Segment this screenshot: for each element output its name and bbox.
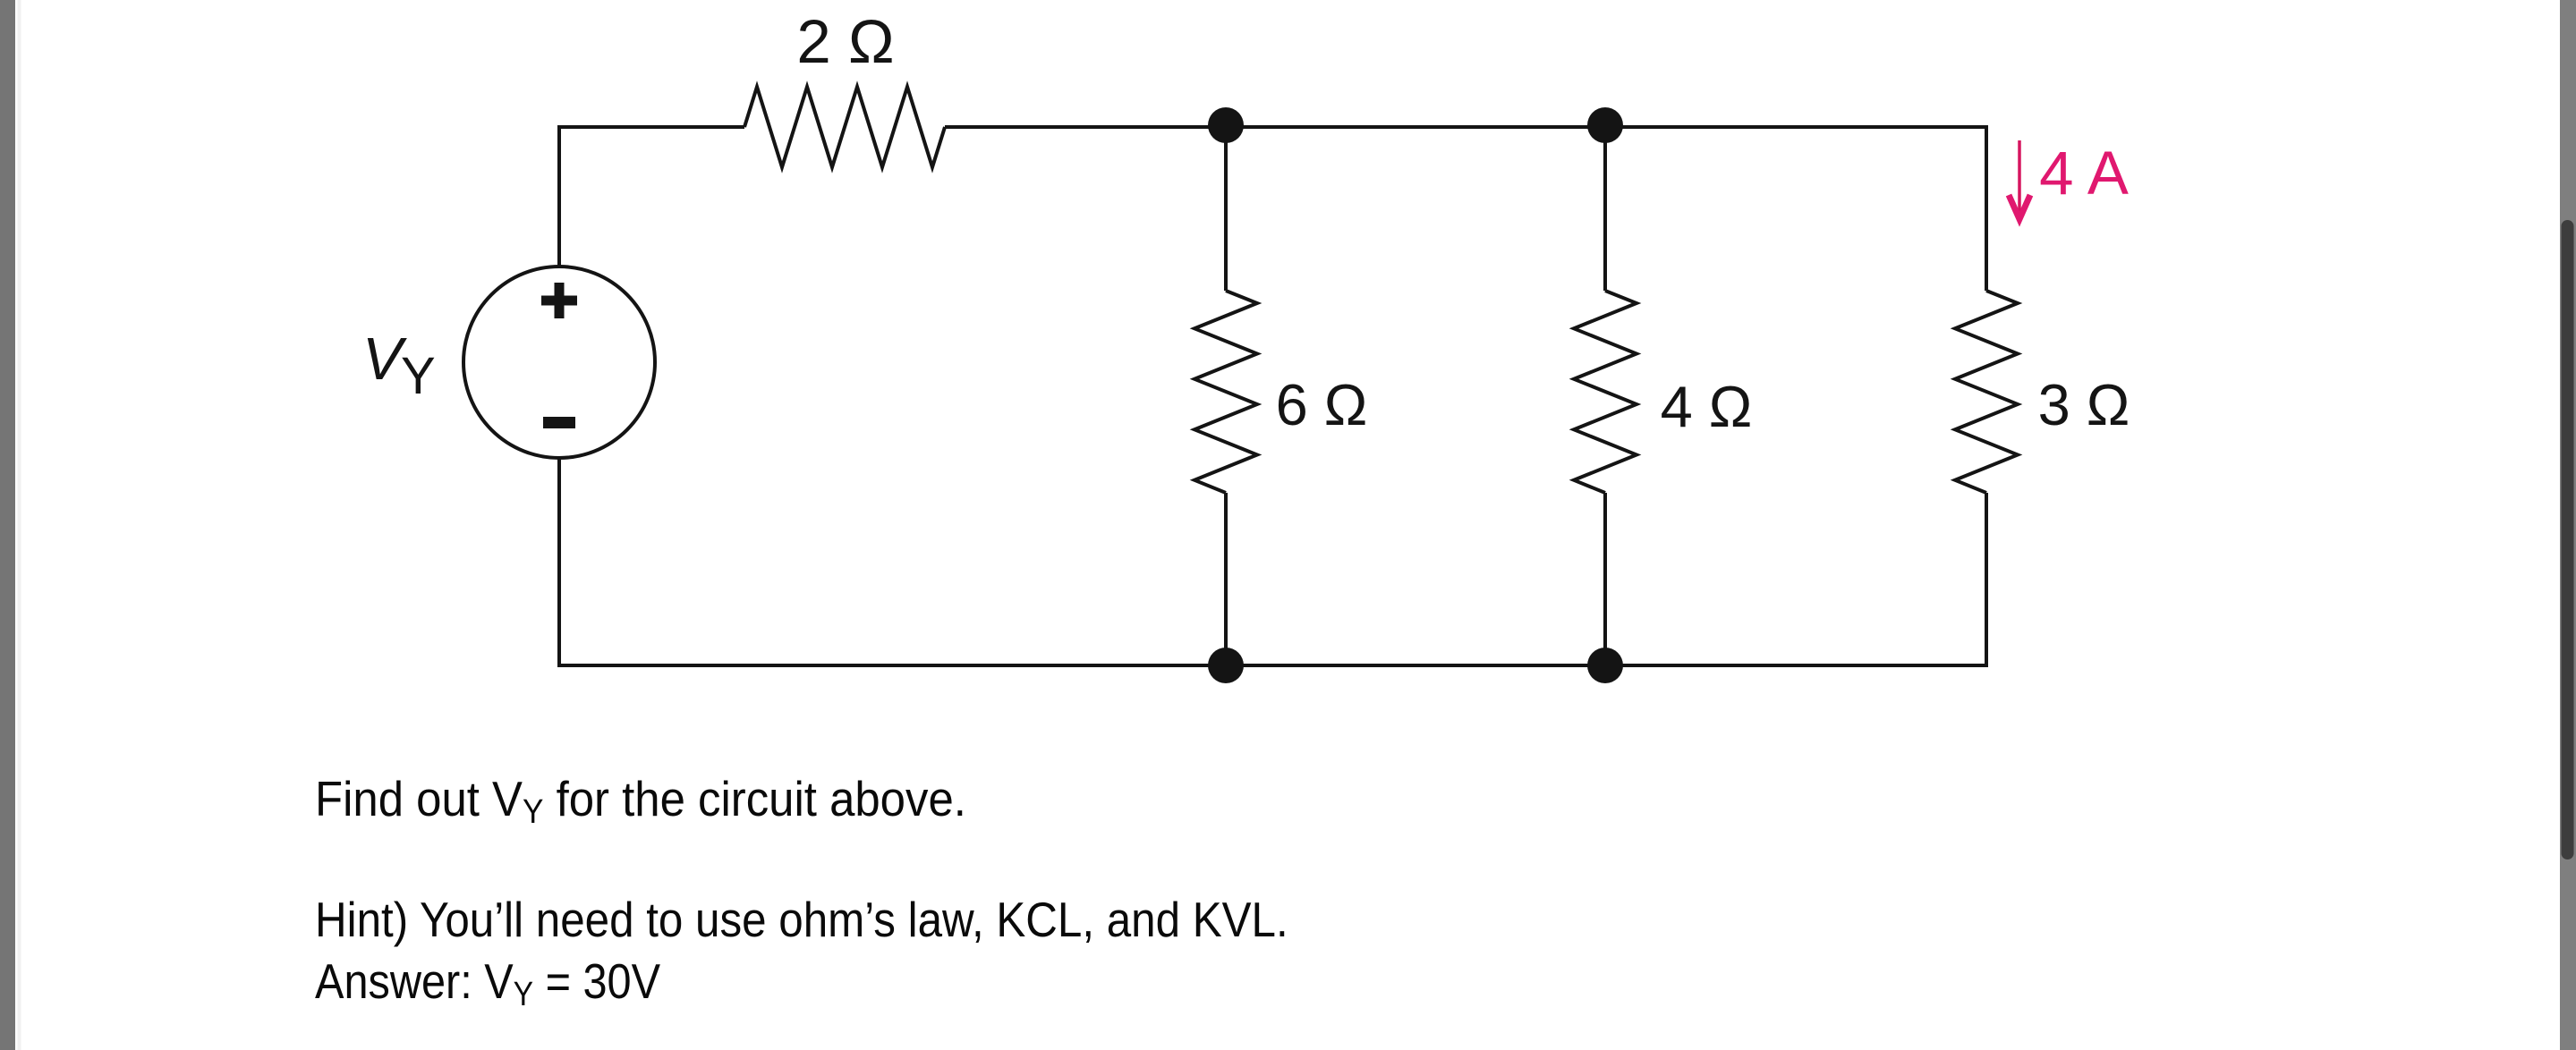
wire top left [559, 125, 744, 129]
wire right lower [1985, 493, 1988, 666]
voltage source plus sign [541, 283, 577, 318]
wire left lower [557, 457, 561, 666]
svg-text:Hint) You’ll need to use ohm’s: Hint) You’ll need to use ohm’s law, KCL,… [315, 893, 1288, 948]
resistor R4 3ohm zigzag [1955, 291, 2018, 493]
svg-text:Find out VY for the circuit ab: Find out VY for the circuit above. [315, 772, 966, 830]
wire branch 6ohm upper [1224, 127, 1228, 291]
caption line 1 [315, 772, 966, 830]
page edge light strip [18, 0, 21, 1050]
svg-text:4 Ω: 4 Ω [1661, 374, 1753, 439]
wire left upper [557, 125, 561, 267]
wire top right [945, 125, 1986, 129]
node B top junction 4ohm [1587, 107, 1623, 143]
wire branch 6ohm lower [1224, 493, 1228, 665]
svg-text:2 Ω: 2 Ω [796, 7, 894, 76]
svg-text:Y: Y [401, 347, 436, 405]
scrollbar thumb [2562, 220, 2574, 859]
caption line 2 hint [315, 893, 1288, 948]
voltage source minus sign [543, 417, 575, 428]
left window edge bar [0, 0, 15, 1050]
svg-text:4 A: 4 A [2039, 139, 2129, 207]
svg-text:6 Ω: 6 Ω [1276, 372, 1368, 437]
caption line 3 answer [315, 954, 660, 1012]
node D bottom junction 4ohm [1587, 648, 1623, 683]
resistor R1 2ohm zigzag [744, 87, 945, 167]
current arrow 4A [2009, 140, 2030, 219]
wire branch 4ohm lower [1603, 493, 1607, 665]
resistor R3 4ohm zigzag [1574, 291, 1637, 493]
svg-text:Answer: VY = 30V: Answer: VY = 30V [315, 954, 660, 1012]
label VY source [362, 326, 436, 405]
svg-text:3 Ω: 3 Ω [2038, 372, 2130, 437]
wire right upper [1985, 125, 1988, 291]
wire branch 4ohm upper [1603, 127, 1607, 291]
node A top junction 6ohm [1208, 107, 1244, 143]
resistor R2 6ohm zigzag [1194, 291, 1257, 493]
voltage source VY circle [463, 267, 655, 458]
wire bottom [557, 664, 1988, 667]
scrollbar track [2560, 0, 2576, 1050]
node C bottom junction 6ohm [1208, 648, 1244, 683]
